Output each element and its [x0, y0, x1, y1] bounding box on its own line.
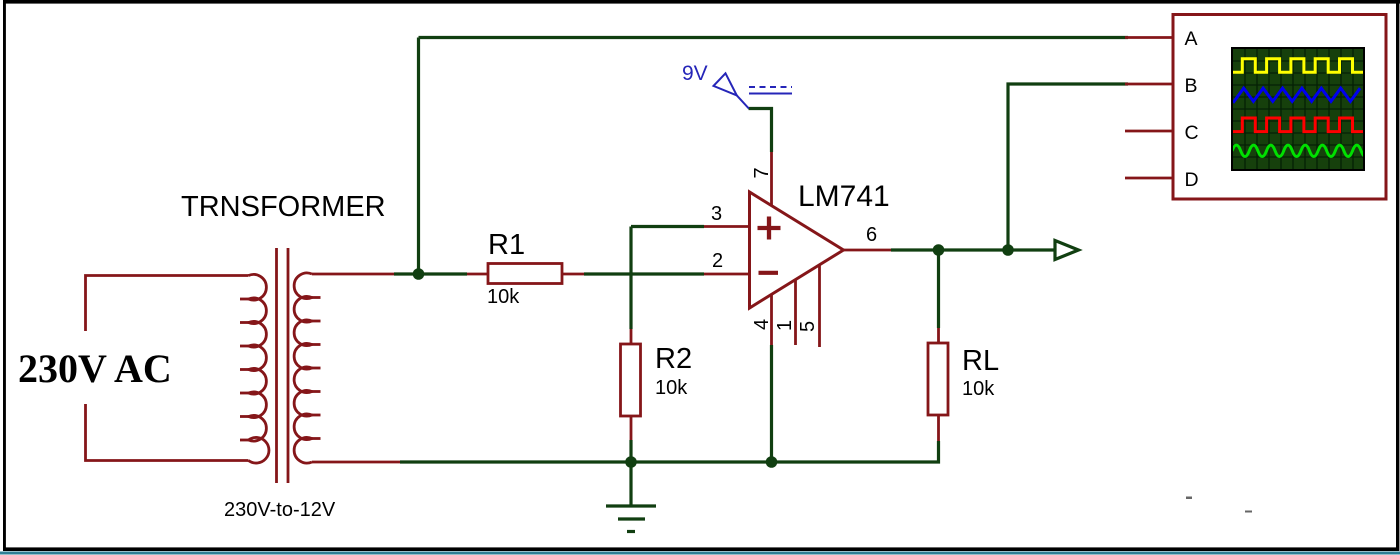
oscilloscope pin D stub (red) — [1125, 177, 1173, 180]
stray mark 1 — [1186, 497, 1192, 500]
op-amp pin 1 stub (red) — [794, 279, 797, 345]
wire: secondary top lead (red) — [312, 273, 394, 276]
resistor RL body — [928, 343, 948, 415]
svg-text:230V AC: 230V AC — [18, 346, 172, 391]
oscilloscope body — [1173, 15, 1386, 200]
transformer primary winding cusp ticks — [240, 299, 249, 440]
wire: pin3 vertical green down to R2 — [629, 227, 632, 330]
battery DC dashed line — [749, 86, 792, 88]
svg-text:7: 7 — [751, 167, 773, 178]
wire: secondary bottom lead (red) — [312, 461, 400, 464]
transformer secondary winding — [294, 273, 312, 463]
battery B1 9V terminal triangle (blue) — [714, 73, 737, 95]
svg-text:9V: 9V — [682, 62, 708, 85]
battery DC solid line — [749, 93, 792, 95]
oscilloscope screen grid — [1233, 49, 1363, 169]
scope trace red square wave — [1233, 118, 1363, 132]
op-amp pin 5 stub (red) — [818, 265, 821, 348]
transformer TR primary winding — [249, 274, 269, 463]
junction node output/scope B — [1002, 244, 1014, 256]
wire: top rail to scope pin A — [419, 36, 1129, 39]
junction node pin4/rail — [766, 456, 778, 468]
transformer core — [277, 248, 289, 483]
resistor R2 top lead (red) — [630, 329, 633, 344]
svg-text:LM741: LM741 — [798, 180, 890, 213]
svg-text:10k: 10k — [655, 377, 688, 399]
wire: output to arrow terminal (green) — [891, 248, 1054, 251]
wire: pin3 horizontal green — [631, 225, 704, 228]
op-amp U1 LM741 triangle — [750, 192, 844, 308]
svg-text:R2: R2 — [655, 343, 692, 375]
oscilloscope screen background — [1231, 47, 1365, 171]
svg-text:1: 1 — [774, 320, 796, 331]
svg-text:C: C — [1185, 122, 1199, 144]
resistor R1 lead right (red) — [562, 273, 584, 276]
svg-text:D: D — [1185, 169, 1199, 191]
svg-text:230V-to-12V: 230V-to-12V — [224, 499, 336, 521]
oscilloscope pin C stub (red) — [1125, 130, 1173, 133]
svg-text:5: 5 — [797, 321, 819, 332]
junction node output/RL — [933, 244, 945, 256]
wire: primary loop left vertical (top part) — [86, 276, 249, 332]
svg-text:10k: 10k — [487, 286, 520, 308]
bottom teal strip — [0, 552, 1400, 555]
stray mark 2 — [1245, 511, 1252, 513]
wire: scope B vertical (green) — [1008, 84, 1128, 250]
scope trace yellow square wave — [1233, 59, 1363, 72]
resistor RL top lead (red) — [937, 328, 940, 343]
wire: bottom ground rail (green) — [400, 441, 939, 462]
resistor R1 lead left (red) — [467, 273, 488, 276]
wire: secondary top lead (green) to R1 — [394, 272, 467, 275]
svg-text:10k: 10k — [962, 378, 995, 400]
svg-text:3: 3 — [711, 203, 722, 225]
op-amp plus symbol — [758, 217, 781, 240]
svg-text:RL: RL — [962, 345, 999, 377]
op-amp pin 4 stub (red) — [770, 294, 773, 346]
oscilloscope pin A stub (red) — [1125, 36, 1173, 39]
oscilloscope pin B stub (red) — [1125, 83, 1173, 86]
wire: R1 to op-amp pin 2 (green) — [584, 272, 704, 275]
battery terminal pin line (blue) — [737, 95, 749, 108]
wire: vertical from node A junction to top rail — [417, 38, 420, 275]
svg-text:2: 2 — [712, 250, 723, 272]
svg-text:6: 6 — [866, 224, 877, 246]
svg-text:R1: R1 — [488, 229, 525, 261]
scope trace green sine wave — [1232, 145, 1370, 156]
op-amp minus symbol — [759, 271, 779, 275]
wire: battery to pin 7 (green) — [749, 109, 772, 153]
svg-text:A: A — [1185, 28, 1198, 50]
resistor R1 body — [488, 264, 562, 284]
scope trace blue triangle wave — [1233, 88, 1360, 101]
op-amp pin 2 stub (red) — [704, 273, 749, 276]
output arrow terminal — [1055, 241, 1079, 260]
wire: pin 4 to ground rail (green) — [770, 345, 773, 462]
wire: R2 to ground rail (green) — [629, 440, 632, 462]
ground symbol — [606, 462, 656, 532]
svg-text:TRNSFORMER: TRNSFORMER — [181, 191, 386, 223]
wire: RL top (green) — [937, 250, 940, 328]
resistor R2 body — [621, 344, 641, 416]
svg-text:4: 4 — [751, 319, 773, 330]
op-amp pin 3 stub (red) — [704, 225, 749, 228]
resistor RL bottom lead (red) — [937, 415, 940, 441]
resistor R2 bottom lead (red) — [630, 416, 633, 440]
op-amp pin 7 stub (red) — [770, 152, 773, 206]
junction node at secondary/R1/top-rail — [413, 268, 425, 280]
svg-text:B: B — [1185, 75, 1198, 97]
junction node R2/rail — [625, 456, 637, 468]
transformer secondary winding cusp ticks — [312, 298, 321, 439]
op-amp output pin 6 stub (red) — [844, 249, 892, 252]
wire: primary loop left vertical (bottom part) — [86, 404, 249, 461]
